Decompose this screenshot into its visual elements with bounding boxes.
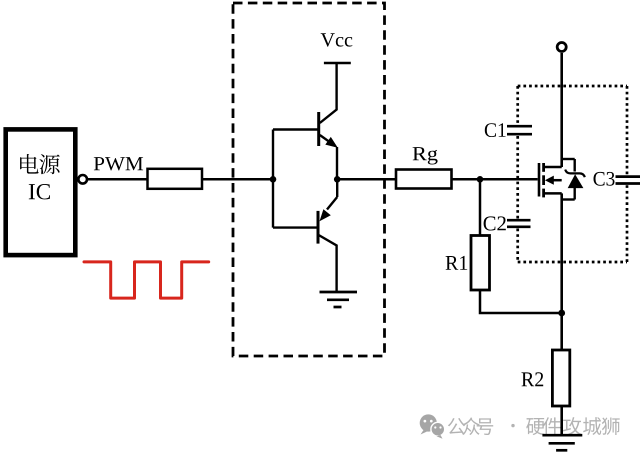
watermark text 公众号 [448,417,493,435]
wire node to R1 [479,179,482,235]
base branch vertical wire [272,130,274,228]
ground (output) [542,435,582,450]
capacitor C2 [507,220,531,227]
ground (driver) [320,292,358,307]
label Rg [413,147,438,164]
label C3 [594,172,615,186]
power IC box [6,129,76,255]
label Vcc [321,33,353,46]
transistor Q1 base lead [273,128,319,130]
MOSFET M1 source stub [545,192,562,195]
drain terminal circle [557,43,566,52]
wire Rg to gate [452,178,538,181]
node input (bases) [270,176,277,183]
label C2 [484,216,506,230]
series resistor (PWM) [148,169,203,189]
transistor Q1 base bar [317,112,320,146]
watermark middle dot [511,424,514,427]
watermark wechat logo [420,414,445,438]
label IC [29,184,50,199]
transistor Q2 collector wire [319,235,337,292]
wire resistor to driver input node [202,178,273,181]
resistor Rg [396,170,452,189]
MOSFET M1 drain stub [545,166,562,169]
resistor R1 [471,236,490,291]
capacitor C1 [507,126,532,134]
PWM output terminal circle [78,175,87,184]
MOSFET M1 body arrow [545,176,562,185]
transistor Q1 collector wire [320,63,337,123]
resistor R2 [552,350,569,406]
node output (emitters) [334,176,341,183]
body diode D1 [562,159,585,200]
driver stage dashed box [233,3,385,356]
wire PWM to series resistor [87,178,148,181]
wire R2 to ground [560,406,563,435]
drain wire [560,53,563,167]
wire driver output to Rg [337,178,396,181]
MOSFET package dotted box [518,86,627,262]
node source/R1/R2 junction [558,310,565,317]
source wire [560,193,563,313]
transistor Q2 base bar [317,211,320,244]
label C1 [485,123,506,137]
MOSFET M1 gate bar [538,163,541,197]
Vcc rail bar [324,62,351,65]
PWM waveform [84,262,209,298]
transistor Q2 emitter with arrow [320,179,338,221]
wire R1 bottom to source node [480,290,562,313]
MOSFET M1 channel segments [542,163,545,197]
label 电源 [20,154,60,174]
node gate branch [477,176,484,183]
label R1 [446,256,468,270]
label R2 [522,372,544,386]
capacitor C3 [616,177,640,184]
label PWM [94,157,143,170]
watermark text 硬件攻城狮 [526,417,620,435]
transistor Q2 base lead [273,226,318,228]
transistor Q1 emitter with arrow [320,135,338,179]
wire node to R2 [560,313,563,350]
